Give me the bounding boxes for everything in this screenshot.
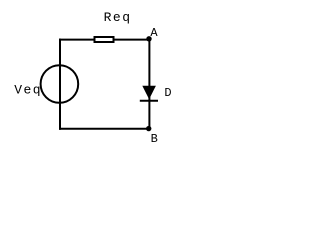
svg-text:Veq: Veq <box>14 83 42 98</box>
svg-text:B: B <box>151 132 158 146</box>
svg-text:Req: Req <box>104 10 132 25</box>
svg-text:A: A <box>150 26 158 40</box>
svg-text:D: D <box>164 86 171 100</box>
